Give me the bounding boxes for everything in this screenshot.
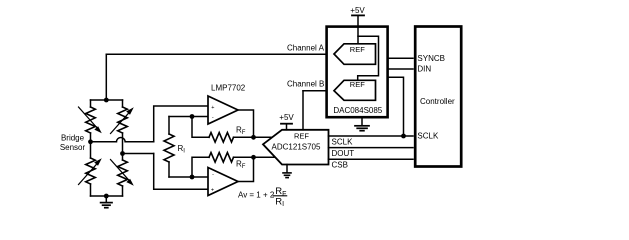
wire: left bridge output with hop over right column <box>91 138 154 142</box>
svg-text:LMP7702: LMP7702 <box>211 84 246 93</box>
node: bottom inverting junction <box>190 175 195 180</box>
svg-text:SYNCB: SYNCB <box>417 54 445 63</box>
op-amp U1A top half LMP7702 <box>208 96 238 124</box>
svg-text:ADC121S705: ADC121S705 <box>272 142 321 151</box>
DAC U3 DAC084S085 body <box>327 27 388 118</box>
wire: top inverting node down to RF row <box>192 117 209 138</box>
wire: left column lower lead <box>90 142 92 158</box>
svg-text:-: - <box>212 115 214 121</box>
wire: bottom RF to summing node <box>234 156 254 158</box>
svg-text:RI: RI <box>178 144 186 155</box>
svg-text:Channel B: Channel B <box>287 80 324 89</box>
wire: CSB ADC to controller <box>329 158 414 160</box>
buffer: REF A (DAC channel A reference amp) <box>334 44 376 65</box>
wire: RI top lead <box>168 117 170 135</box>
wire: right bridge output <box>123 153 154 155</box>
wire: top op-amp output to top RF node <box>238 110 254 137</box>
svg-text:+: + <box>211 188 214 194</box>
svg-text:REF: REF <box>350 80 365 89</box>
wire: SCLK net ADC to controller <box>329 135 414 137</box>
svg-text:RF: RF <box>236 125 246 136</box>
wire: right column to bottom rail <box>122 186 124 196</box>
ADC U2 ADC121S705 body <box>263 130 329 165</box>
svg-text:RI: RI <box>275 196 284 208</box>
svg-text:+5V: +5V <box>350 6 365 15</box>
wire: Channel A from DAC REF to bridge <box>106 53 334 55</box>
arrow: variable mark R3 <box>79 158 102 184</box>
ground: ADC <box>283 165 291 178</box>
resistor RF (top) <box>209 133 234 143</box>
arrow: variable mark R1 <box>79 107 102 133</box>
label: gain formula Av = 1 + 2 RF/RI <box>238 186 286 208</box>
svg-text:Bridge: Bridge <box>61 133 85 142</box>
wire: bridge left column upper lead <box>90 100 92 107</box>
svg-text:REF: REF <box>350 45 365 54</box>
Controller block <box>415 27 461 167</box>
node: bridge bottom junction <box>104 194 109 199</box>
node: bridge top junction <box>104 98 109 103</box>
arrow: variable mark R4 <box>111 160 134 186</box>
node: SCLK junction <box>401 134 406 139</box>
svg-text:Controller: Controller <box>420 97 455 106</box>
resistor RF (bottom) <box>209 153 234 163</box>
arrow: variable mark R2 <box>111 107 134 133</box>
svg-text:SCLK: SCLK <box>417 132 439 141</box>
supply +5V (DAC) <box>350 6 365 44</box>
node: top inverting junction <box>190 114 195 119</box>
wire: SYNCB DAC to controller <box>388 57 413 59</box>
node: bottom RF output junction <box>251 155 256 160</box>
resistor R4 bridge bottom-right <box>118 160 128 186</box>
wire: left column to mid-left node <box>90 133 92 142</box>
svg-text:DOUT: DOUT <box>332 149 355 158</box>
wire: internal reference feed to bottom REF buffer <box>358 36 379 80</box>
svg-text:+5V: +5V <box>279 113 294 122</box>
resistor R1 bridge top-left <box>86 107 96 133</box>
wire: left output up to top op-amp + input <box>154 106 208 142</box>
svg-text:DAC084S085: DAC084S085 <box>333 106 382 115</box>
wire: DOUT ADC to controller <box>329 147 414 149</box>
wire: left column to bottom rail <box>90 184 92 196</box>
svg-text:Av = 1 + 2: Av = 1 + 2 <box>238 190 275 199</box>
resistor R3 bridge bottom-left <box>86 158 96 184</box>
wire: ADC REF up to Channel B line <box>302 91 304 130</box>
wire: ADC bottom differential input <box>254 156 276 158</box>
svg-text:RF: RF <box>236 160 246 171</box>
ground: bridge <box>101 196 112 208</box>
wire: bottom op-amp output to bottom RF node <box>238 157 254 181</box>
wire: RI bottom lead <box>168 162 170 177</box>
wire: top RF to summing node <box>234 136 254 138</box>
wire: top op-amp inverting input <box>169 116 208 118</box>
wire: bottom inverting node up to RF row <box>192 157 209 177</box>
wire: DIN DAC to controller <box>388 68 413 70</box>
svg-text:CSB: CSB <box>332 160 348 169</box>
node: bridge left output junction <box>88 139 93 144</box>
wire: bridge top node to Channel A line <box>105 54 107 100</box>
wire: ADC top differential input <box>254 136 275 138</box>
wire: bridge right column upper lead <box>122 100 124 107</box>
node: bridge right output junction <box>120 151 125 156</box>
resistor R2 bridge top-right <box>118 107 128 133</box>
svg-text:SCLK: SCLK <box>332 137 354 146</box>
node: top RF output junction <box>251 135 256 140</box>
wire: DAC SCLK pin down to SCLK net <box>388 77 404 136</box>
wire: right column to mid-right node <box>122 133 124 154</box>
ground: DAC <box>355 117 369 131</box>
wire: bottom op-amp inverting input <box>169 176 208 178</box>
wire: bridge top rail <box>91 99 123 101</box>
resistor RI <box>164 134 174 162</box>
wire: right column lower lead <box>122 154 124 161</box>
svg-text:Sensor: Sensor <box>60 143 86 152</box>
wire: Channel B from DAC REF <box>303 90 334 92</box>
svg-text:-: - <box>212 172 214 178</box>
svg-text:Channel A: Channel A <box>287 44 325 53</box>
svg-text:REF: REF <box>294 132 309 141</box>
supply +5V (ADC) <box>279 113 294 130</box>
buffer: REF B (DAC channel B reference amp) <box>334 80 376 100</box>
wire: bridge bottom rail <box>91 195 123 197</box>
svg-text:+: + <box>211 105 214 111</box>
wire: right output down to bottom op-amp + input <box>154 154 208 190</box>
svg-text:DIN: DIN <box>417 65 431 74</box>
op-amp U1B bottom half <box>208 168 238 196</box>
